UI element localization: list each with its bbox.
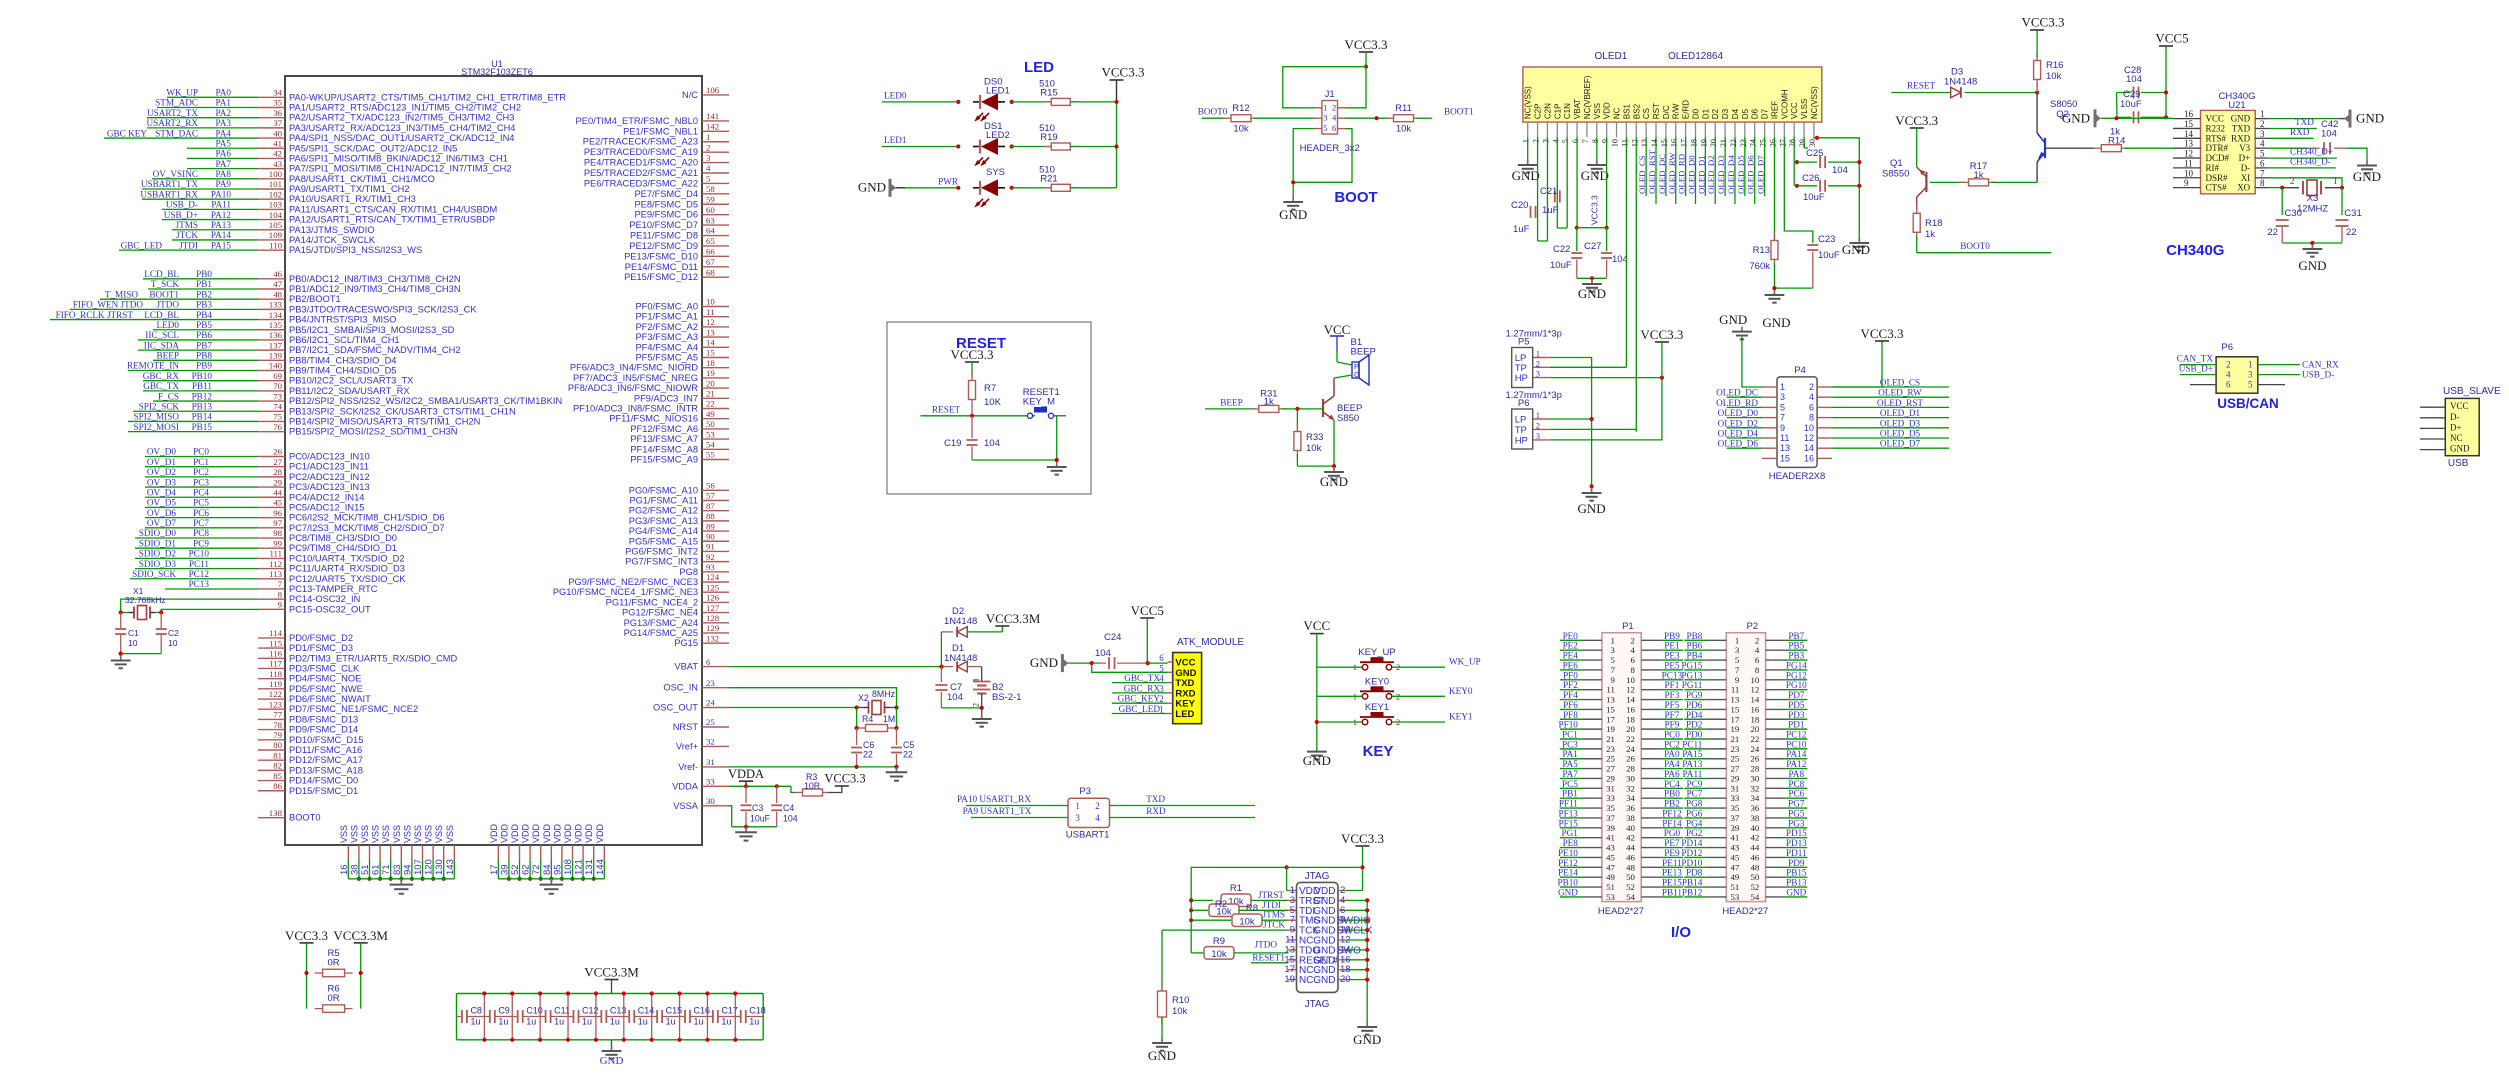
pin 137 PB7 xyxy=(258,340,461,355)
svg-text:78: 78 xyxy=(273,720,282,730)
svg-text:60: 60 xyxy=(706,205,715,215)
svg-text:RST: RST xyxy=(1652,103,1661,119)
pin 138 BOOT0 xyxy=(258,808,321,823)
svg-text:PG6: PG6 xyxy=(1686,808,1703,818)
svg-text:VLSS: VLSS xyxy=(1800,99,1809,119)
svg-text:GND: GND xyxy=(1578,286,1606,301)
svg-text:JTRST: JTRST xyxy=(1258,890,1284,900)
svg-text:72: 72 xyxy=(531,864,542,875)
transistor Q1 S8550 xyxy=(1882,128,1926,210)
svg-text:PC0: PC0 xyxy=(1664,730,1680,740)
svg-text:PB0: PB0 xyxy=(196,269,212,279)
svg-text:3: 3 xyxy=(1735,645,1740,655)
svg-text:7: 7 xyxy=(1581,139,1590,143)
svg-text:10k: 10k xyxy=(1233,124,1249,135)
svg-text:USBART1: USBART1 xyxy=(1066,830,1110,841)
svg-text:PD10: PD10 xyxy=(1681,858,1702,868)
svg-text:12: 12 xyxy=(706,317,715,327)
pin 110 PA15 xyxy=(258,240,422,255)
svg-text:1N4148: 1N4148 xyxy=(944,653,977,664)
svg-text:134: 134 xyxy=(269,310,283,320)
svg-text:NRST: NRST xyxy=(673,722,699,732)
svg-text:USART2_TX: USART2_TX xyxy=(147,108,198,118)
svg-text:OV_D4: OV_D4 xyxy=(147,487,176,497)
svg-text:PB8: PB8 xyxy=(1686,631,1702,641)
svg-text:PD13: PD13 xyxy=(1786,838,1807,848)
svg-text:31: 31 xyxy=(1731,783,1740,793)
wire PC14 to crystal xyxy=(121,599,258,612)
svg-text:VCC3.3: VCC3.3 xyxy=(824,772,865,786)
svg-text:OLED_D0: OLED_D0 xyxy=(1686,155,1696,194)
svg-text:20: 20 xyxy=(1709,139,1718,147)
svg-text:95: 95 xyxy=(552,864,563,875)
svg-text:C19: C19 xyxy=(944,438,961,449)
svg-text:PB4: PB4 xyxy=(196,310,212,320)
svg-text:VDD: VDD xyxy=(595,823,605,843)
ground xyxy=(1303,747,1331,768)
svg-text:C2: C2 xyxy=(168,628,179,638)
resistor R4 1M xyxy=(855,708,899,732)
svg-text:PC3/ADC123_IN13: PC3/ADC123_IN13 xyxy=(289,482,370,492)
svg-text:67: 67 xyxy=(706,257,715,267)
svg-text:PD9/FSMC_D14: PD9/FSMC_D14 xyxy=(289,725,358,735)
svg-text:PG2: PG2 xyxy=(1686,828,1703,838)
svg-text:GND: GND xyxy=(1578,501,1606,516)
svg-text:2: 2 xyxy=(1332,102,1336,112)
svg-text:2: 2 xyxy=(2260,119,2265,129)
svg-text:83: 83 xyxy=(392,864,403,875)
svg-text:D5: D5 xyxy=(1741,108,1750,119)
svg-text:SPI2_SCK: SPI2_SCK xyxy=(139,401,180,411)
wire net OV_D2 xyxy=(145,467,258,477)
svg-text:65: 65 xyxy=(706,236,715,246)
svg-text:12: 12 xyxy=(2184,149,2193,159)
svg-text:GND: GND xyxy=(2231,114,2251,124)
svg-text:41: 41 xyxy=(273,138,282,148)
svg-text:PE15: PE15 xyxy=(1662,878,1682,888)
svg-text:PB8/TIM4_CH3/SDIO_D4: PB8/TIM4_CH3/SDIO_D4 xyxy=(289,355,396,365)
svg-text:44: 44 xyxy=(273,487,282,497)
svg-text:D1: D1 xyxy=(1701,108,1710,119)
pin 34 PA0-WKUP xyxy=(258,88,566,103)
wire vcc5 rail xyxy=(2164,46,2168,119)
wire net JTDI xyxy=(119,240,258,250)
svg-text:PG8: PG8 xyxy=(679,567,698,577)
svg-text:PA5/SPI1_SCK/DAC_OUT2/ADC12_IN: PA5/SPI1_SCK/DAC_OUT2/ADC12_IN5 xyxy=(289,143,457,153)
svg-text:16: 16 xyxy=(1751,704,1760,714)
svg-text:PC4/ADC12_IN14: PC4/ADC12_IN14 xyxy=(289,492,364,502)
pin 67 PE14 xyxy=(625,257,729,272)
wire net SPI2_MISO xyxy=(128,412,258,422)
svg-text:10uF: 10uF xyxy=(1550,260,1572,271)
pin 29 PC3 xyxy=(258,477,370,492)
svg-text:PF4: PF4 xyxy=(1563,690,1578,700)
svg-text:VCC3.3: VCC3.3 xyxy=(951,347,994,362)
svg-text:13: 13 xyxy=(2184,139,2194,149)
svg-text:1k: 1k xyxy=(1264,397,1274,408)
svg-text:PD13/FSMC_A18: PD13/FSMC_A18 xyxy=(289,765,363,775)
pin 132 PG15 xyxy=(674,633,729,648)
svg-text:GND: GND xyxy=(2298,258,2326,273)
svg-text:PC9: PC9 xyxy=(1686,779,1702,789)
ground xyxy=(550,879,552,885)
svg-text:PG15: PG15 xyxy=(1681,660,1702,670)
svg-text:42: 42 xyxy=(1751,833,1760,843)
wire P4.2 vcc xyxy=(1832,341,1882,387)
wire net STM_DAC xyxy=(104,128,258,138)
svg-text:PA3/USART2_RX/ADC123_IN3/TIM5_: PA3/USART2_RX/ADC123_IN3/TIM5_CH4/TIM2_C… xyxy=(289,123,515,133)
svg-text:SYS: SYS xyxy=(986,167,1005,178)
capacitor C19 104 xyxy=(944,416,1000,460)
svg-text:99: 99 xyxy=(273,538,282,548)
svg-text:R1: R1 xyxy=(1230,883,1242,894)
svg-text:PA0: PA0 xyxy=(1664,749,1680,759)
svg-text:1u: 1u xyxy=(693,1017,703,1027)
pin 78 PD9 xyxy=(258,720,358,735)
svg-text:JTDI: JTDI xyxy=(1262,900,1281,910)
svg-text:PA12: PA12 xyxy=(1786,759,1806,769)
svg-text:NC(VSS): NC(VSS) xyxy=(1810,86,1819,119)
svg-text:70: 70 xyxy=(273,381,282,391)
svg-text:PC6: PC6 xyxy=(193,508,209,518)
svg-text:PB11/I2C2_SDA/USART_RX: PB11/I2C2_SDA/USART_RX xyxy=(289,386,410,396)
ground xyxy=(1353,1022,1381,1047)
svg-text:OLED_D1: OLED_D1 xyxy=(1880,408,1921,418)
svg-text:4: 4 xyxy=(1755,645,1760,655)
pin 5 PE6 xyxy=(584,174,729,189)
svg-text:PB1/ADC12_IN9/TIM3_CH4/TIM8_CH: PB1/ADC12_IN9/TIM3_CH4/TIM8_CH3N xyxy=(289,284,461,294)
svg-text:OV_VSINC: OV_VSINC xyxy=(153,169,198,179)
svg-text:PC15-OSC32_OUT: PC15-OSC32_OUT xyxy=(289,604,371,614)
pin 6 VBAT xyxy=(674,657,729,672)
svg-text:PF15: PF15 xyxy=(1558,818,1578,828)
svg-text:OLED12864: OLED12864 xyxy=(1668,51,1723,62)
svg-text:PB7: PB7 xyxy=(1788,631,1804,641)
svg-text:OLED_D7: OLED_D7 xyxy=(1880,439,1921,449)
pin 42 PA6 xyxy=(258,149,508,164)
svg-text:PA15: PA15 xyxy=(1682,749,1702,759)
svg-text:C31: C31 xyxy=(2344,208,2361,219)
svg-text:111: 111 xyxy=(269,549,282,559)
svg-text:101: 101 xyxy=(269,179,282,189)
svg-text:2: 2 xyxy=(1809,382,1814,392)
wire net USART2_TX xyxy=(147,108,258,118)
svg-text:PC4: PC4 xyxy=(193,487,209,497)
svg-text:PA6: PA6 xyxy=(216,149,232,159)
wire net OV_D1 xyxy=(145,457,258,467)
svg-text:39: 39 xyxy=(1606,823,1615,833)
svg-text:NC: NC xyxy=(1299,975,1313,986)
svg-text:3: 3 xyxy=(1780,392,1785,402)
IC ATK_MODULE xyxy=(1159,637,1244,724)
svg-text:PB5/I2C1_SMBAI/SPI3_MOSI/I2S3_: PB5/I2C1_SMBAI/SPI3_MOSI/I2S3_SD xyxy=(289,325,455,335)
svg-text:43: 43 xyxy=(1731,843,1740,853)
svg-text:DSR#: DSR# xyxy=(2206,173,2229,183)
svg-text:OLED_D2: OLED_D2 xyxy=(1718,418,1759,428)
diode D1 1N4148 xyxy=(941,643,981,672)
svg-text:0R: 0R xyxy=(328,958,340,969)
wire P4.1 gnd xyxy=(1742,337,1762,387)
svg-text:P5: P5 xyxy=(1518,337,1530,348)
svg-text:PA14: PA14 xyxy=(1786,749,1806,759)
svg-text:18: 18 xyxy=(706,358,715,368)
svg-text:OLED_CS: OLED_CS xyxy=(1880,378,1920,388)
svg-text:130: 130 xyxy=(434,859,445,875)
svg-text:USB_D+: USB_D+ xyxy=(164,210,198,220)
diode D2 1N4148 xyxy=(941,606,1002,637)
wire net OV_D0 xyxy=(145,447,258,457)
svg-text:PD7/FSMC_NE1/FSMC_NCE2: PD7/FSMC_NE1/FSMC_NCE2 xyxy=(289,704,418,714)
svg-text:VDD: VDD xyxy=(542,823,552,843)
svg-text:1u: 1u xyxy=(749,1017,759,1027)
power VCC3.3 xyxy=(1910,127,1924,129)
svg-text:GND: GND xyxy=(1512,168,1540,183)
svg-text:64: 64 xyxy=(706,226,715,236)
svg-text:12: 12 xyxy=(1630,139,1639,147)
svg-text:GND: GND xyxy=(1320,474,1348,489)
svg-text:PB12/SPI2_NSS/I2S2_WS/I2C2_SMB: PB12/SPI2_NSS/I2S2_WS/I2C2_SMBA1/USART3_… xyxy=(289,396,562,406)
svg-text:PC7: PC7 xyxy=(193,518,209,528)
pin 96 PC6 xyxy=(258,508,445,523)
svg-text:PE9: PE9 xyxy=(1664,848,1680,858)
svg-text:3: 3 xyxy=(1610,645,1615,655)
svg-text:33: 33 xyxy=(706,777,715,787)
pin 74 PB13 xyxy=(258,401,516,416)
svg-text:PB4/JNTRST/SPI3_MISO: PB4/JNTRST/SPI3_MISO xyxy=(289,315,396,325)
ground xyxy=(2353,161,2381,185)
power VCC5 xyxy=(1140,617,1154,619)
svg-text:VDD: VDD xyxy=(531,823,541,843)
header P4 HEADER2X8 xyxy=(1762,365,1832,482)
svg-text:VSS: VSS xyxy=(434,825,444,843)
svg-text:PG15: PG15 xyxy=(674,638,698,648)
svg-text:P4: P4 xyxy=(1794,365,1806,376)
svg-text:PE14: PE14 xyxy=(1558,868,1578,878)
pin 31 Vref- xyxy=(678,757,729,772)
svg-text:PF2/FSMC_A2: PF2/FSMC_A2 xyxy=(635,322,698,332)
pin 92 PG7 xyxy=(625,552,729,567)
junction xyxy=(1590,484,1594,488)
svg-text:23: 23 xyxy=(1606,744,1615,754)
wire XI xyxy=(2267,178,2342,188)
svg-text:1u: 1u xyxy=(470,1017,480,1027)
resistor R14 1k xyxy=(2046,127,2173,152)
wire CH340_D+ xyxy=(2267,147,2337,159)
svg-text:PB15: PB15 xyxy=(1786,868,1807,878)
pin 22 PF10 xyxy=(573,399,729,414)
svg-text:105: 105 xyxy=(269,220,283,230)
svg-text:VDDA: VDDA xyxy=(728,767,764,781)
capacitor C29 10uF xyxy=(2117,89,2167,123)
wire VLSS NC xyxy=(1804,136,1861,238)
svg-text:118: 118 xyxy=(269,669,282,679)
svg-text:CH340_D-: CH340_D- xyxy=(2290,156,2331,166)
svg-text:OLED_D4: OLED_D4 xyxy=(1726,155,1736,194)
svg-text:3: 3 xyxy=(706,153,711,163)
pin 116 PD2 xyxy=(258,648,458,663)
svg-text:PA4: PA4 xyxy=(1664,759,1680,769)
wire xyxy=(829,786,842,793)
svg-text:1uF: 1uF xyxy=(1542,205,1559,216)
svg-text:R232: R232 xyxy=(2206,123,2226,133)
svg-text:GBC_RX: GBC_RX xyxy=(143,371,180,381)
svg-text:PC6: PC6 xyxy=(1788,789,1804,799)
svg-text:LED0: LED0 xyxy=(157,320,180,330)
pin 10 PF0 xyxy=(635,297,729,312)
svg-text:R4: R4 xyxy=(862,714,873,724)
wire ATK gnd pin5 xyxy=(1092,663,1168,672)
svg-text:PB12: PB12 xyxy=(192,391,213,401)
svg-text:1.27mm/1*3p: 1.27mm/1*3p xyxy=(1505,329,1562,340)
svg-text:CS: CS xyxy=(1642,108,1651,119)
svg-text:DCD#: DCD# xyxy=(2206,153,2230,163)
svg-text:7: 7 xyxy=(1780,413,1785,423)
svg-text:139: 139 xyxy=(269,351,283,361)
pin 56 PG0 xyxy=(629,481,729,496)
svg-text:PC13-TAMPER_RTC: PC13-TAMPER_RTC xyxy=(289,584,378,594)
svg-text:11: 11 xyxy=(1780,433,1789,443)
svg-text:PC3: PC3 xyxy=(193,477,209,487)
svg-text:PA7: PA7 xyxy=(1562,769,1578,779)
svg-text:54: 54 xyxy=(1751,892,1760,902)
svg-text:22: 22 xyxy=(1729,139,1738,147)
svg-text:21: 21 xyxy=(1719,139,1728,147)
svg-text:0R: 0R xyxy=(328,993,340,1004)
svg-text:G: G xyxy=(1354,370,1360,379)
svg-text:VCC3.3: VCC3.3 xyxy=(1102,65,1145,80)
pin 111 PC10 xyxy=(258,549,405,564)
pin 79 PD10 xyxy=(258,730,363,745)
pin 36 PA2 xyxy=(258,108,514,123)
wire xyxy=(940,632,942,667)
svg-text:4: 4 xyxy=(706,163,711,173)
pin 85 PD14 xyxy=(258,771,358,786)
svg-text:VDD: VDD xyxy=(552,823,562,843)
svg-text:10: 10 xyxy=(1751,675,1760,685)
svg-text:F_CS: F_CS xyxy=(158,391,179,401)
pin 88 PG3 xyxy=(629,511,729,526)
svg-text:VSS: VSS xyxy=(402,825,412,843)
wire PC15 to crystal xyxy=(161,609,258,612)
svg-text:6: 6 xyxy=(1159,653,1164,663)
svg-text:15: 15 xyxy=(1606,704,1615,714)
svg-text:54: 54 xyxy=(1626,892,1635,902)
svg-text:WK_UP: WK_UP xyxy=(166,88,198,98)
svg-text:PF9/ADC3_IN7: PF9/ADC3_IN7 xyxy=(634,393,698,403)
resistor R10 10k xyxy=(1158,983,1190,1038)
svg-text:PD1: PD1 xyxy=(1788,720,1805,730)
svg-text:66: 66 xyxy=(706,247,715,257)
svg-text:E/RD: E/RD xyxy=(1682,100,1691,119)
capacitor C31 22 xyxy=(2336,188,2362,243)
pin 113 PC12 xyxy=(258,569,406,584)
svg-text:1.27mm/1*3p: 1.27mm/1*3p xyxy=(1505,390,1562,401)
wire VCC loop xyxy=(1283,52,1368,108)
pin 27 PC1 xyxy=(258,457,369,472)
power VCC3.3 xyxy=(1102,65,1145,102)
svg-text:21: 21 xyxy=(706,389,715,399)
pin 125 PG10 xyxy=(553,582,729,597)
wire Vref- gnd xyxy=(729,765,899,769)
pin 50 PF12 xyxy=(630,419,729,434)
svg-text:81: 81 xyxy=(273,750,282,760)
pin 13 PF3 xyxy=(635,327,729,342)
wire net JTDO xyxy=(70,300,258,310)
wire net IIC_SCL xyxy=(138,330,258,340)
svg-text:47: 47 xyxy=(1606,862,1615,872)
pin 86 PD15 xyxy=(258,781,358,796)
svg-text:PG3/FSMC_A13: PG3/FSMC_A13 xyxy=(629,516,698,526)
svg-text:127: 127 xyxy=(706,603,720,613)
svg-text:TXD: TXD xyxy=(2232,123,2251,133)
svg-text:10: 10 xyxy=(168,638,178,648)
svg-text:6: 6 xyxy=(1755,655,1760,665)
svg-text:2: 2 xyxy=(1095,801,1100,811)
svg-text:C27: C27 xyxy=(1584,241,1601,252)
svg-text:86: 86 xyxy=(273,781,282,791)
svg-text:GBC_LED: GBC_LED xyxy=(121,240,163,250)
svg-text:USB_D+: USB_D+ xyxy=(2179,364,2213,374)
svg-text:PB15: PB15 xyxy=(192,422,213,432)
svg-text:LED: LED xyxy=(1024,59,1054,76)
svg-text:C18: C18 xyxy=(749,1006,766,1016)
svg-text:USB_D-: USB_D- xyxy=(166,200,198,210)
svg-text:14: 14 xyxy=(706,338,715,348)
wire net T_SCK xyxy=(148,279,258,289)
svg-text:6: 6 xyxy=(1332,123,1336,133)
svg-text:10k: 10k xyxy=(1396,124,1412,135)
svg-text:ATK_MODULE: ATK_MODULE xyxy=(1177,637,1244,648)
svg-text:V3: V3 xyxy=(2239,143,2250,153)
svg-text:J1: J1 xyxy=(1325,89,1335,100)
svg-text:PG9/FSMC_NE2/FSMC_NCE3: PG9/FSMC_NE2/FSMC_NCE3 xyxy=(568,577,698,587)
junction xyxy=(119,610,123,614)
svg-text:PB7: PB7 xyxy=(196,340,212,350)
svg-text:1: 1 xyxy=(1610,635,1614,645)
pin 101 PA9 xyxy=(258,179,410,194)
svg-text:PD4/FSMC_NOE: PD4/FSMC_NOE xyxy=(289,674,361,684)
svg-text:97: 97 xyxy=(273,518,282,528)
ground xyxy=(896,767,898,772)
svg-text:36: 36 xyxy=(273,108,282,118)
svg-text:45: 45 xyxy=(1606,852,1615,862)
svg-text:PF8: PF8 xyxy=(1563,710,1578,720)
stub xyxy=(2190,384,2216,386)
svg-text:PG12: PG12 xyxy=(1786,670,1807,680)
svg-text:1: 1 xyxy=(972,678,981,682)
svg-text:C2P: C2P xyxy=(1534,104,1543,120)
svg-text:REMOTE_IN: REMOTE_IN xyxy=(127,361,179,371)
svg-text:44: 44 xyxy=(1751,843,1760,853)
pin 69 PB10 xyxy=(258,371,413,386)
svg-text:PF13: PF13 xyxy=(1558,808,1578,818)
svg-text:P2: P2 xyxy=(1746,621,1758,632)
svg-text:PC12/UART5_TX/SDIO_CK: PC12/UART5_TX/SDIO_CK xyxy=(289,574,406,584)
svg-text:OV_D6: OV_D6 xyxy=(147,508,176,518)
svg-text:FIFO_WEN JTDO: FIFO_WEN JTDO xyxy=(73,300,144,310)
wire net GBC_TX xyxy=(1112,673,1168,683)
svg-text:4: 4 xyxy=(1095,813,1100,823)
resistor R7 10K xyxy=(969,373,1002,409)
svg-text:34: 34 xyxy=(273,88,282,98)
svg-text:VSS: VSS xyxy=(360,825,370,843)
svg-text:HEAD2*27: HEAD2*27 xyxy=(1598,906,1644,917)
svg-text:PE3/TRACED0/FSMC_A19: PE3/TRACED0/FSMC_A19 xyxy=(584,147,698,157)
svg-text:3: 3 xyxy=(1541,139,1550,143)
svg-text:OLED1: OLED1 xyxy=(1595,51,1628,62)
svg-text:54: 54 xyxy=(706,440,715,450)
svg-text:CAN_TX: CAN_TX xyxy=(2177,354,2214,364)
